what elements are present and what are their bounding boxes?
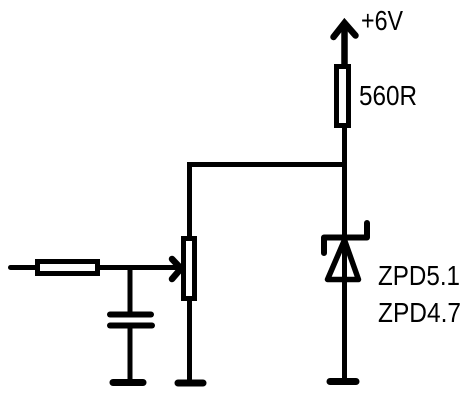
wire right rail (resistor bottom to ground)	[342, 125, 347, 381]
ground (potentiometer)	[178, 380, 203, 387]
potentiometer body	[184, 239, 195, 299]
resistor 560R	[337, 67, 349, 126]
potentiometer wiper arrow	[172, 259, 181, 279]
wire capacitor branch vertical	[128, 268, 133, 314]
capacitor C1	[110, 315, 152, 326]
power symbol +6V arrow	[334, 23, 356, 66]
wire potentiometer bottom	[187, 297, 192, 381]
wire wiper horizontal	[11, 265, 178, 270]
svg-text:ZPD4.7: ZPD4.7	[378, 297, 461, 328]
ground (zener)	[330, 378, 356, 385]
svg-text:560R: 560R	[359, 80, 417, 111]
resistor R2 (input, left)	[38, 262, 98, 274]
wire left vertical to potentiometer	[187, 162, 192, 238]
ground (capacitor)	[113, 379, 143, 386]
wire capacitor to ground	[128, 327, 133, 381]
svg-text:+6V: +6V	[361, 5, 403, 36]
zener diode anode triangle	[328, 240, 359, 280]
wire horizontal branch	[187, 162, 347, 167]
zener diode cathode bar	[324, 223, 367, 253]
svg-text:ZPD5.1: ZPD5.1	[378, 260, 460, 291]
